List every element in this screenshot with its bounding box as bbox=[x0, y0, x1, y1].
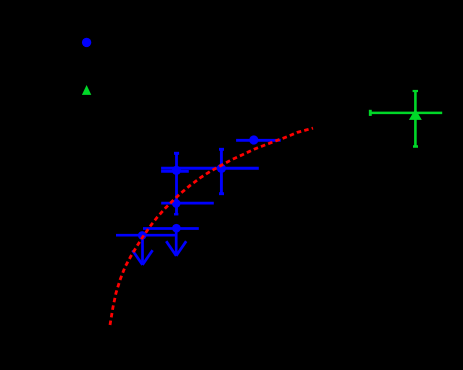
green triangle marker bbox=[409, 109, 422, 120]
point P3 vertical error bar bbox=[220, 149, 223, 196]
point P6 marker bbox=[138, 231, 147, 240]
green horizontal bar left cap bbox=[369, 110, 372, 116]
P2/P4 vertical error bar bbox=[175, 152, 178, 215]
bar U: P2+P3 horizontal error bar bbox=[161, 167, 259, 170]
point P3 marker bbox=[217, 164, 226, 173]
P4 vertical bar bottom cap bbox=[174, 213, 178, 216]
red dashed theory curve bbox=[110, 128, 313, 325]
point P4 horizontal error bar bbox=[161, 202, 214, 205]
point P2 marker bbox=[172, 166, 181, 175]
point P1 marker bbox=[249, 135, 258, 144]
legend marker: blue circle bbox=[82, 38, 91, 47]
point P5 horizontal error bar bbox=[143, 227, 199, 230]
blue data points group bbox=[116, 135, 281, 264]
point P4 marker bbox=[172, 199, 181, 208]
green data point group bbox=[370, 91, 442, 147]
P5 arrow head right arm bbox=[176, 241, 186, 256]
bar L: lower horizontal error bar at P2 bbox=[161, 170, 189, 173]
green vertical bar top cap bbox=[413, 90, 418, 92]
green vertical error bar bbox=[414, 91, 417, 147]
P5 arrow head left arm bbox=[166, 241, 176, 256]
P5 upper-limit arrow shaft bbox=[175, 229, 178, 255]
point P1 horizontal error bar bbox=[236, 139, 281, 142]
P6 arrow head left arm bbox=[132, 250, 142, 265]
P6 upper-limit arrow shaft bbox=[141, 235, 144, 263]
point P6 horizontal error bar bbox=[116, 234, 176, 237]
green horizontal error bar bbox=[370, 112, 442, 115]
P6 arrow head right arm bbox=[143, 250, 153, 265]
green vertical bar bottom cap bbox=[413, 145, 418, 148]
legend marker: green triangle bbox=[82, 85, 91, 95]
P3 vertical bar bottom cap bbox=[219, 192, 224, 195]
point P5 marker bbox=[172, 224, 181, 233]
P2 vertical bar top cap bbox=[174, 152, 179, 155]
P3 vertical bar top cap bbox=[219, 148, 224, 151]
